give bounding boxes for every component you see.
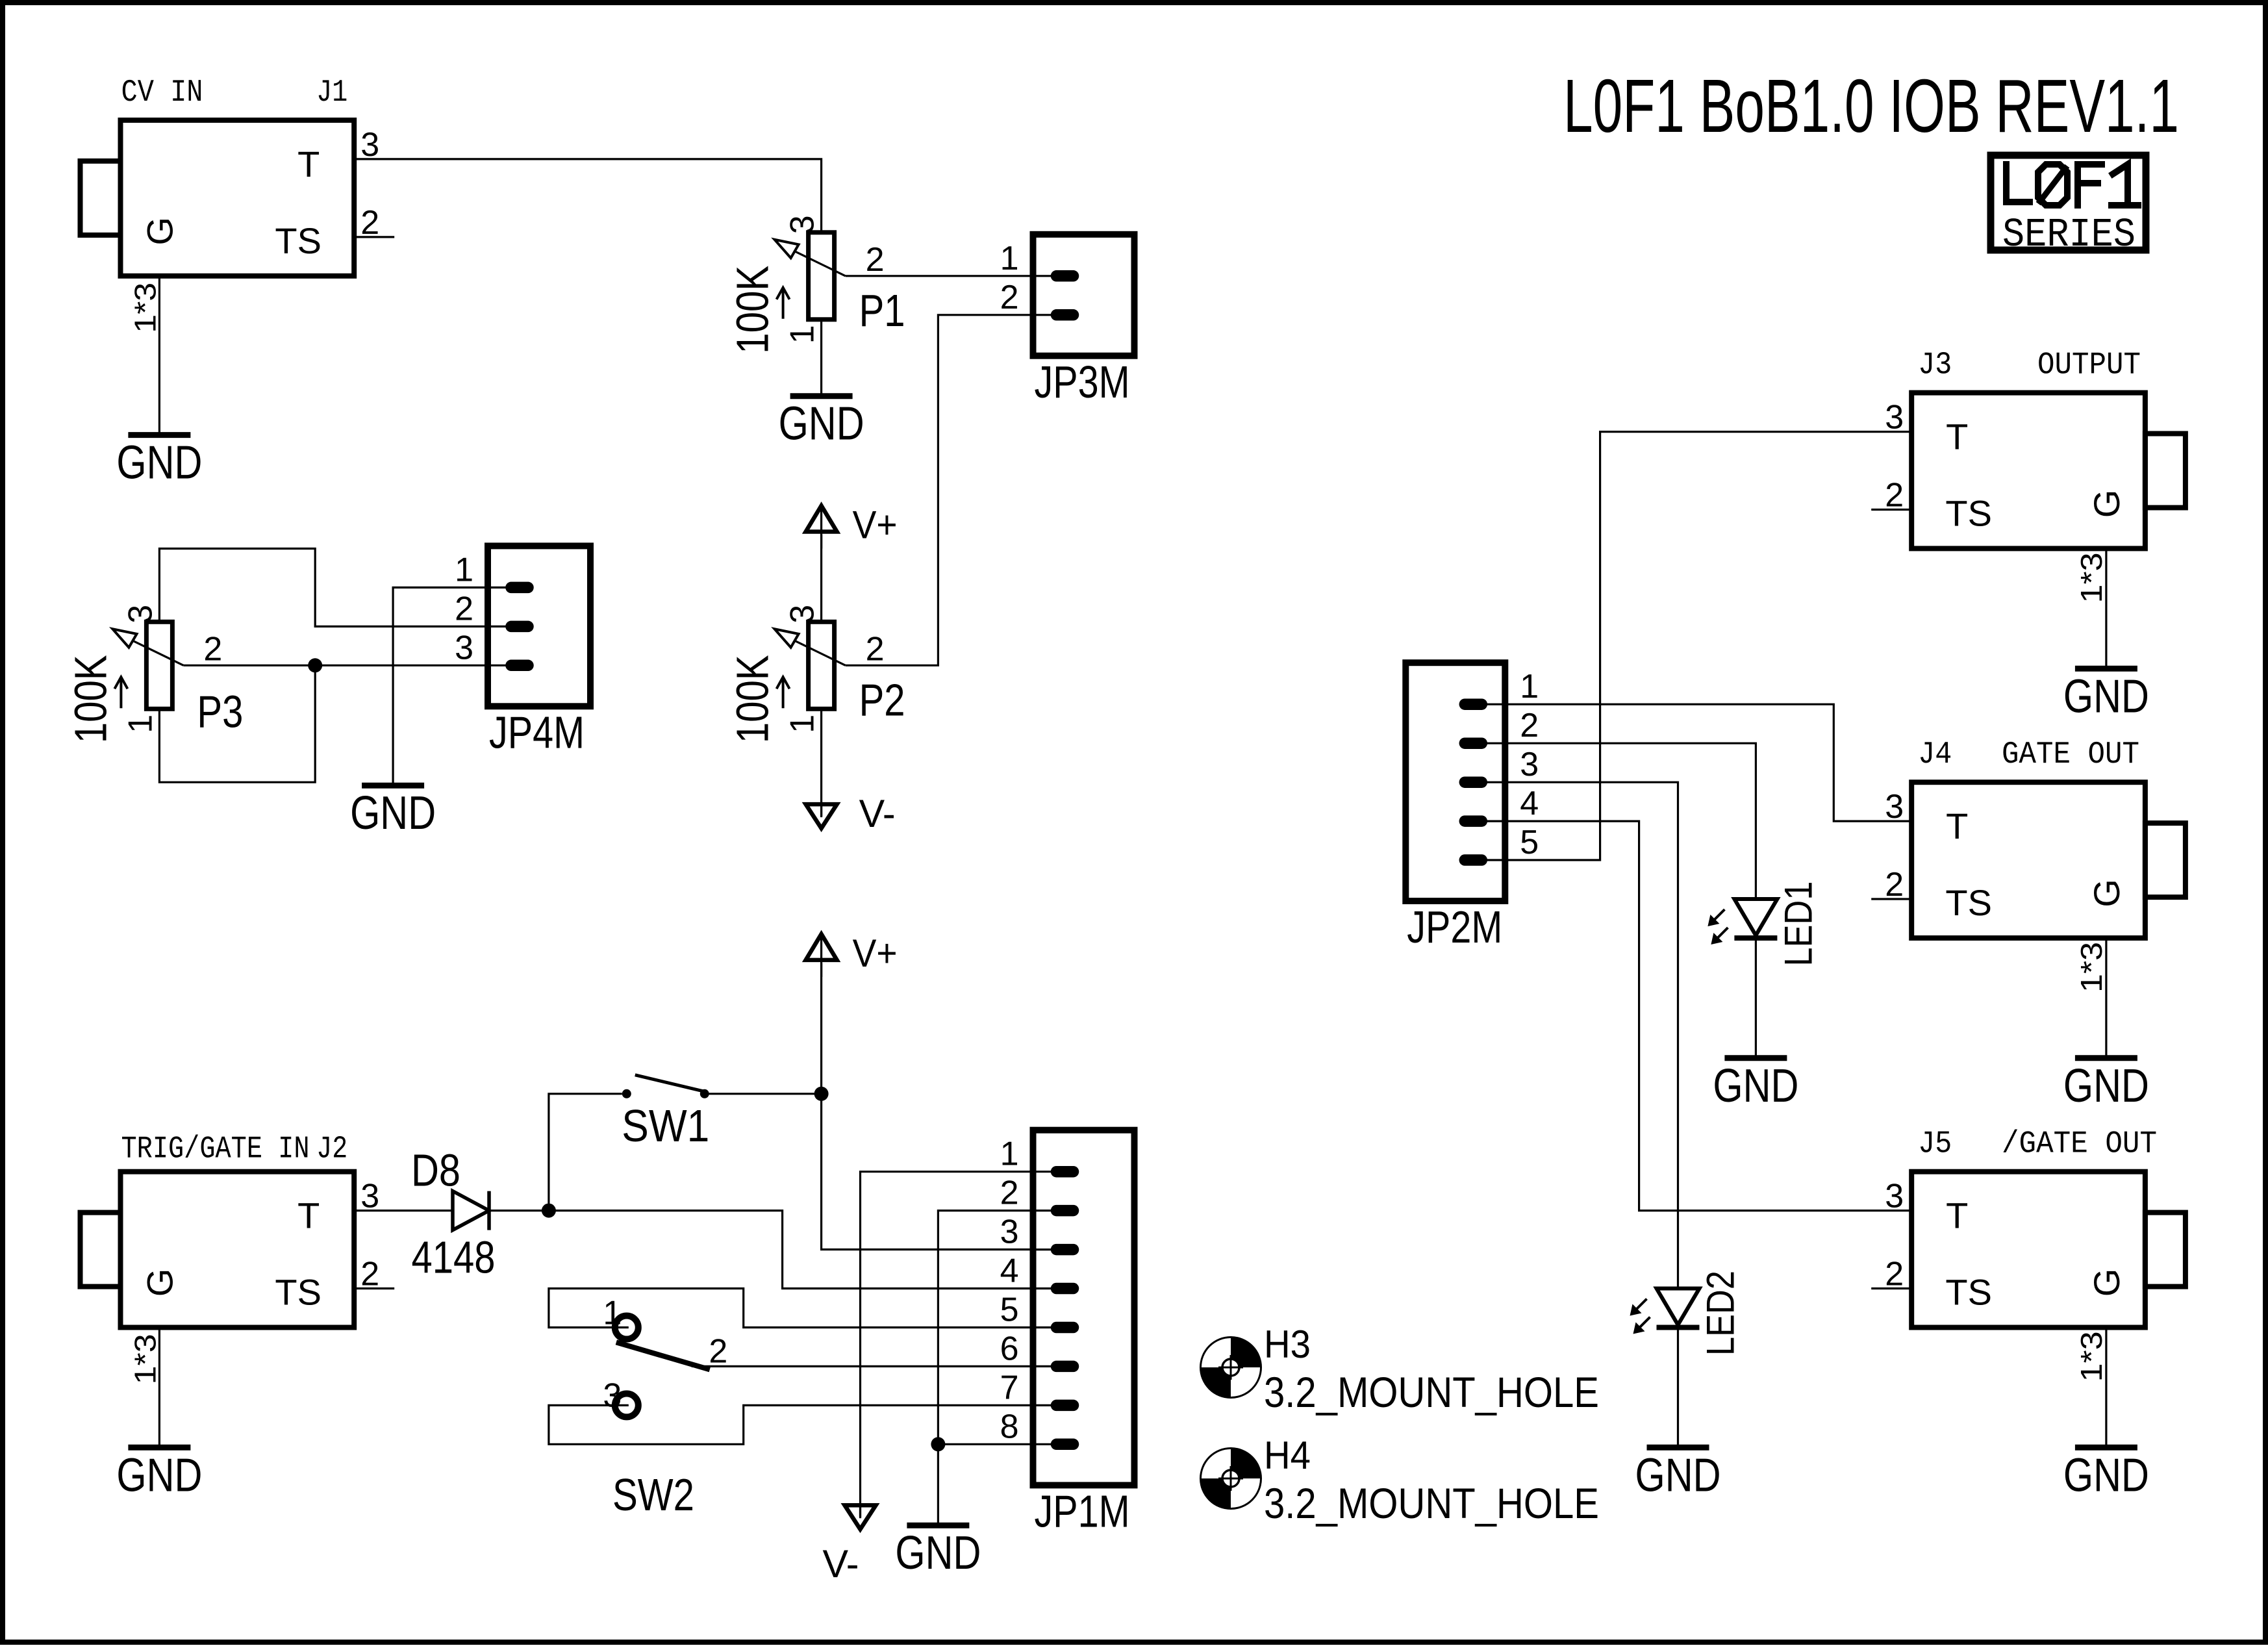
svg-text:1: 1 <box>121 715 159 733</box>
pin 4 <box>1459 820 1505 822</box>
ground GND (J2) <box>116 1447 202 1501</box>
svg-text:P2: P2 <box>859 674 905 725</box>
svg-text:JP1M: JP1M <box>1035 1486 1130 1536</box>
svg-text:P1: P1 <box>859 285 905 336</box>
svg-text:2: 2 <box>360 1256 379 1293</box>
wire P2 pin1 to V- <box>820 709 822 816</box>
svg-text:GND: GND <box>2063 1060 2149 1112</box>
jack J2 (TRIG/GATE IN) <box>81 1132 395 1385</box>
wire JP3M pin2 to P2 wiper <box>846 315 1033 666</box>
wire JP4M pin1 to GND <box>393 587 488 784</box>
ground GND (LED1) <box>1713 1058 1798 1112</box>
svg-text:2: 2 <box>1000 1174 1019 1212</box>
pin 1 <box>488 587 533 589</box>
header JP2M <box>1405 663 1539 952</box>
svg-text:J5: J5 <box>1918 1127 1952 1162</box>
svg-text:100K: 100K <box>727 266 778 354</box>
svg-text:GND: GND <box>779 398 864 450</box>
svg-text:CV IN: CV IN <box>121 75 203 110</box>
wire SW2 pin1 to JP1M pin5 <box>549 1289 1033 1328</box>
wire P3 pin1 loop <box>159 665 315 782</box>
switch SW1 <box>622 1075 709 1151</box>
svg-text:1: 1 <box>1000 240 1019 277</box>
svg-text:3.2_MOUNT_HOLE: 3.2_MOUNT_HOLE <box>1264 1479 1599 1527</box>
pin 2 <box>1033 314 1079 316</box>
svg-text:1*3: 1*3 <box>2074 1331 2108 1382</box>
pin 3 <box>1459 781 1505 783</box>
mount hole H3 <box>1201 1323 1600 1416</box>
wire pin8 node to JP1M pin8 <box>938 1443 1033 1445</box>
svg-text:100K: 100K <box>727 655 778 743</box>
svg-text:J4: J4 <box>1918 737 1952 772</box>
svg-text:J3: J3 <box>1918 348 1952 383</box>
pin 2 stub <box>1871 509 1911 511</box>
svg-text:1: 1 <box>1000 1135 1019 1173</box>
svg-text:T: T <box>1946 805 1968 846</box>
pin 4 <box>1033 1287 1079 1289</box>
power V- (P2) <box>806 792 896 835</box>
svg-text:LED2: LED2 <box>1699 1271 1743 1356</box>
logo L0F1 SERIES <box>1991 155 2146 258</box>
svg-text:6: 6 <box>1000 1330 1019 1367</box>
LED LED2 <box>1630 1271 1743 1356</box>
wire V+ to P2 pin3 <box>820 533 822 622</box>
wire P3 wiper to JP4M pin3 <box>183 665 488 666</box>
junction (JP1M pin8 node) <box>931 1437 945 1451</box>
pin 5 <box>1033 1326 1079 1328</box>
svg-text:JP4M: JP4M <box>489 707 585 757</box>
svg-text:GND: GND <box>1713 1060 1798 1112</box>
pin 3 <box>488 665 533 666</box>
svg-text:100K: 100K <box>65 655 116 743</box>
potentiometer P3 (100K) <box>65 605 243 743</box>
trim arrow <box>120 677 122 708</box>
wire J1 pin3 to P1 pin3 <box>354 159 821 233</box>
svg-text:P3: P3 <box>197 686 243 737</box>
wire J5 pin1 to GND <box>2105 1328 2107 1447</box>
ground GND (JP4M) <box>350 785 436 839</box>
svg-text:3: 3 <box>455 629 473 666</box>
pin 6 <box>1033 1365 1079 1367</box>
ground GND (J3) <box>2063 668 2149 722</box>
svg-text:SERIES: SERIES <box>2002 212 2136 258</box>
svg-text:2: 2 <box>455 590 473 628</box>
ground GND (P1) <box>779 396 864 450</box>
pin 3 <box>1033 1249 1079 1250</box>
ground GND (JP1M) <box>895 1525 981 1579</box>
junction (P3 wiper) <box>308 658 322 672</box>
svg-text:TS: TS <box>275 1272 321 1313</box>
pin 1 <box>1033 1171 1079 1173</box>
potentiometer P2 (100K) <box>727 605 905 743</box>
pin 2 stub <box>1871 1287 1911 1289</box>
svg-text:SW2: SW2 <box>612 1469 694 1520</box>
svg-text:1*3: 1*3 <box>128 1334 162 1384</box>
svg-text:GND: GND <box>350 787 436 839</box>
title text <box>1563 64 2179 148</box>
svg-text:L0F1 BoB1.0 IOB REV1.1: L0F1 BoB1.0 IOB REV1.1 <box>1563 64 2179 148</box>
wire J2 pin1 to GND <box>158 1328 160 1447</box>
svg-text:8: 8 <box>1000 1408 1019 1445</box>
svg-text:T: T <box>297 144 320 184</box>
svg-text:D8: D8 <box>411 1145 460 1196</box>
pin 2 <box>488 626 533 628</box>
wire J2 pin3 to D8 anode <box>354 1210 453 1211</box>
wire LED2 to GND <box>1677 1328 1679 1447</box>
svg-text:1: 1 <box>784 715 822 733</box>
wire P3 pin3 to JP4M pin2 <box>159 549 488 627</box>
jack J4 (GATE OUT) <box>1871 737 2186 993</box>
svg-text:SW1: SW1 <box>622 1100 709 1151</box>
wire SW2 pin3 to JP1M pin7 <box>549 1405 1033 1444</box>
svg-text:3.2_MOUNT_HOLE: 3.2_MOUNT_HOLE <box>1264 1368 1599 1416</box>
mount hole H4 <box>1201 1434 1600 1527</box>
svg-text:1: 1 <box>784 325 822 344</box>
svg-text:1: 1 <box>455 551 473 589</box>
svg-text:3: 3 <box>1000 1213 1019 1251</box>
svg-text:3: 3 <box>784 215 822 234</box>
svg-text:GND: GND <box>1635 1449 1721 1501</box>
power V- (JP1M) <box>823 1505 876 1586</box>
svg-text:1*3: 1*3 <box>2074 553 2108 603</box>
wire JP1M pin2 to pin8 node <box>938 1211 1033 1445</box>
svg-text:G: G <box>140 217 181 246</box>
ground GND (J1) <box>116 435 202 489</box>
wire JP2M pin3 to LED2 <box>1505 782 1678 1288</box>
svg-text:3: 3 <box>1520 746 1539 783</box>
jack J1 (CV IN) <box>81 75 395 333</box>
svg-text:7: 7 <box>1000 1369 1019 1406</box>
svg-text:GND: GND <box>116 1449 202 1501</box>
svg-text:3: 3 <box>121 605 159 624</box>
wire P1 pin1 to GND <box>820 320 822 395</box>
power V+ (SW1) <box>806 932 898 977</box>
svg-text:2: 2 <box>709 1332 727 1370</box>
wire P1 wiper to JP3M pin1 <box>846 275 1033 277</box>
svg-text:2: 2 <box>866 630 885 668</box>
svg-text:GND: GND <box>2063 1449 2149 1501</box>
svg-text:1: 1 <box>1520 668 1539 705</box>
trim arrow <box>782 288 785 319</box>
svg-text:T: T <box>1946 1195 1968 1236</box>
svg-text:H3: H3 <box>1264 1323 1311 1366</box>
svg-text:4: 4 <box>1520 785 1539 822</box>
pin 2 stub <box>1871 898 1911 900</box>
pin 8 <box>1033 1443 1079 1445</box>
svg-text:2: 2 <box>203 630 222 668</box>
svg-text:2: 2 <box>1885 1256 1904 1293</box>
wire J1 pin1 to GND <box>158 276 160 434</box>
svg-text:2: 2 <box>1885 477 1904 514</box>
jack J5 (/GATE OUT) <box>1871 1127 2186 1382</box>
svg-text:4148: 4148 <box>412 1232 496 1283</box>
ground GND (J4) <box>2063 1058 2149 1112</box>
svg-text:3: 3 <box>1885 788 1904 826</box>
header JP3M <box>1000 235 1135 407</box>
svg-text:GND: GND <box>2063 670 2149 722</box>
svg-text:2: 2 <box>1000 279 1019 316</box>
svg-text:1*3: 1*3 <box>128 283 162 333</box>
svg-text:GATE OUT: GATE OUT <box>2002 737 2139 772</box>
wire J3 pin1 to GND <box>2105 549 2107 668</box>
svg-text:V+: V+ <box>853 503 898 547</box>
svg-text:5: 5 <box>1520 824 1539 861</box>
power V+ (P2) <box>806 503 898 549</box>
svg-text:T: T <box>1946 416 1968 457</box>
pin 2 <box>1033 1210 1079 1211</box>
wire D8 node to JP1M pin4 <box>549 1211 1033 1289</box>
svg-text:2: 2 <box>1520 707 1539 744</box>
wire JP2M pin4 to J5 pin3 <box>1505 821 1911 1211</box>
svg-text:V+: V+ <box>853 932 898 975</box>
svg-text:3: 3 <box>1885 399 1904 437</box>
svg-text:3: 3 <box>360 126 379 164</box>
svg-text:LED1: LED1 <box>1776 881 1820 967</box>
wire JP1M pin1 to V- <box>861 1172 1033 1517</box>
svg-text:J1: J1 <box>316 75 347 110</box>
svg-text:G: G <box>2086 879 2127 907</box>
svg-text:TS: TS <box>275 220 321 261</box>
diode D8 (4148) <box>411 1145 496 1283</box>
svg-text:V-: V- <box>859 792 896 835</box>
LED LED1 <box>1707 881 1820 967</box>
svg-text:2: 2 <box>866 241 885 279</box>
pin 7 <box>1033 1404 1079 1406</box>
svg-text:3: 3 <box>603 1376 622 1414</box>
wire JP2M pin5 to J3 pin3 <box>1505 432 1911 860</box>
svg-text:1*3: 1*3 <box>2074 942 2108 993</box>
switch SW2 <box>603 1295 727 1521</box>
svg-text:5: 5 <box>1000 1291 1019 1329</box>
svg-text:J2: J2 <box>316 1132 347 1167</box>
jack J3 (OUTPUT) <box>1871 348 2186 603</box>
wire SW2 pin2 to JP1M pin6 <box>692 1365 1033 1367</box>
pin 5 <box>1459 859 1505 861</box>
svg-text:G: G <box>140 1269 181 1297</box>
svg-text:1: 1 <box>603 1295 622 1332</box>
svg-text:TS: TS <box>1945 493 1992 534</box>
svg-text:V-: V- <box>823 1542 859 1586</box>
header JP4M <box>455 546 590 757</box>
pin 1 <box>1033 275 1079 277</box>
svg-text:TS: TS <box>1945 882 1992 923</box>
wire V+ node to JP1M pin3 <box>822 1094 1033 1250</box>
pin 2 <box>1459 742 1505 744</box>
svg-text:G: G <box>2086 490 2127 518</box>
ground GND (LED2) <box>1635 1447 1721 1501</box>
junction (V+ node) <box>814 1087 829 1101</box>
trim arrow <box>782 677 785 708</box>
wire D8 cathode to junction <box>489 1210 549 1211</box>
svg-text:OUTPUT: OUTPUT <box>2037 348 2141 383</box>
svg-text:GND: GND <box>895 1527 981 1579</box>
svg-text:H4: H4 <box>1264 1434 1311 1477</box>
wire junction up to SW1 <box>549 1094 622 1211</box>
wire LED1 to GND <box>1755 938 1757 1057</box>
header JP1M <box>1000 1130 1135 1537</box>
svg-text:T: T <box>297 1195 320 1236</box>
wire J4 pin1 to GND <box>2105 938 2107 1057</box>
svg-text:JP2M: JP2M <box>1407 902 1502 952</box>
svg-text:3: 3 <box>360 1178 379 1215</box>
svg-text:2: 2 <box>360 204 379 242</box>
svg-text:JP3M: JP3M <box>1035 357 1130 407</box>
svg-text:TRIG/GATE IN: TRIG/GATE IN <box>121 1132 310 1167</box>
svg-text:TS: TS <box>1945 1272 1992 1313</box>
svg-text:3: 3 <box>784 605 822 624</box>
wire V+ down to junction <box>820 961 822 1094</box>
svg-text:4: 4 <box>1000 1252 1019 1290</box>
wire pin8 node to GND <box>937 1444 939 1524</box>
wire JP2M pin1 to J4 pin3 <box>1505 704 1911 821</box>
svg-text:/GATE OUT: /GATE OUT <box>2002 1127 2157 1162</box>
svg-text:G: G <box>2086 1269 2127 1297</box>
pin 1 <box>1459 704 1505 705</box>
wire JP2M pin2 to LED1 <box>1505 743 1756 899</box>
potentiometer P1 (100K) <box>727 215 905 353</box>
svg-text:3: 3 <box>1885 1178 1904 1215</box>
ground GND (J5) <box>2063 1447 2149 1501</box>
wire SW1 to V+ node <box>705 1093 822 1095</box>
junction (D8 output node) <box>542 1204 556 1218</box>
svg-text:GND: GND <box>116 437 202 489</box>
svg-text:2: 2 <box>1885 866 1904 904</box>
